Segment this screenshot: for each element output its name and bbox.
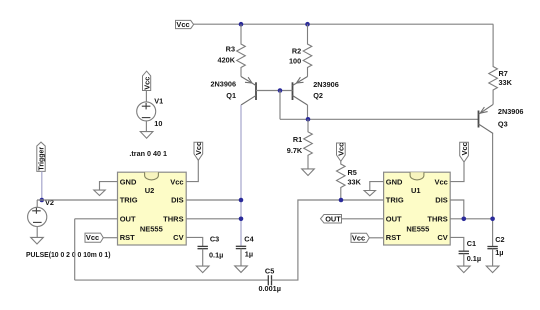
svg-text:Vcc: Vcc: [142, 77, 151, 90]
svg-text:GND: GND: [386, 177, 403, 186]
transistor Q2: [293, 77, 308, 106]
flag Vcc above V1 (vertical, apex up): [142, 71, 151, 90]
flag Vcc at U2 RST: [85, 233, 103, 242]
svg-text:R2: R2: [292, 46, 301, 55]
resistor R7: [489, 24, 498, 104]
svg-text:R1: R1: [293, 135, 302, 144]
ground at U1 GND: [364, 191, 375, 196]
capacitor C5: [268, 275, 271, 285]
wire Q1-Q2 base: [256, 90, 293, 92]
wire U1 THRS to C2: [450, 218, 492, 220]
ground below C3: [196, 266, 209, 273]
svg-text:33K: 33K: [499, 78, 513, 87]
voltage source V2: [28, 200, 47, 237]
ground below R1: [302, 169, 315, 176]
node R5 TRIG junction: [339, 198, 344, 203]
svg-text:Trigger: Trigger: [39, 147, 46, 171]
node mirror output: [306, 117, 311, 122]
wire C4 to ground: [240, 249, 242, 266]
resistor R5: [336, 161, 345, 200]
svg-text:Vcc: Vcc: [194, 142, 203, 155]
node THRS C2 junction: [490, 217, 495, 222]
wire U1 DIS down to THRS: [450, 200, 464, 219]
flag Vcc above U2 (vertical, apex down): [194, 142, 203, 160]
svg-text:R5: R5: [348, 168, 357, 177]
svg-text:THRS: THRS: [427, 214, 447, 223]
svg-text:NE555: NE555: [406, 224, 429, 233]
svg-text:33K: 33K: [348, 178, 362, 187]
wire V1 top: [145, 91, 147, 102]
wire Trigger vertical: [41, 171, 43, 200]
wire Q3 collector to C2: [492, 134, 494, 247]
svg-text:0.1µ: 0.1µ: [209, 250, 223, 259]
svg-text:C4: C4: [244, 235, 254, 244]
node U2 THRS junction: [239, 217, 244, 222]
svg-text:Q3: Q3: [498, 120, 508, 129]
svg-text:1µ: 1µ: [495, 248, 503, 257]
ground below V1: [140, 132, 153, 139]
resistor R3: [237, 24, 246, 76]
svg-text:2N3906: 2N3906: [498, 107, 524, 116]
IC U2 NE555 body: [118, 172, 187, 245]
node V2 trigger junction: [40, 198, 45, 203]
svg-text:CV: CV: [437, 233, 447, 242]
svg-text:10: 10: [154, 119, 162, 128]
svg-text:1µ: 1µ: [245, 249, 253, 258]
svg-text:C2: C2: [495, 235, 504, 244]
wire C1 to ground: [463, 254, 465, 267]
wire U2 THRS to C4 line: [186, 218, 241, 220]
capacitor C4: [236, 246, 246, 248]
wire Q2 collector: [307, 105, 309, 119]
wire U1 CV to C1: [450, 237, 464, 251]
svg-text:THRS: THRS: [163, 214, 183, 223]
wire U2 Vcc pin to flag: [186, 160, 198, 181]
svg-text:420K: 420K: [218, 55, 236, 64]
wire OUT flag to U1 OUT: [342, 218, 384, 220]
node Vcc rail junction at R2: [305, 22, 310, 27]
svg-text:OUT: OUT: [325, 214, 341, 223]
IC U1 NE555 body: [384, 172, 451, 245]
flag Vcc at U1 RST: [351, 233, 369, 242]
wire Q1 collector down to C4: [240, 105, 242, 246]
wire U2 CV to C3: [186, 237, 203, 246]
svg-text:Vcc: Vcc: [352, 233, 365, 242]
svg-text:Vcc: Vcc: [460, 142, 469, 155]
svg-text:GND: GND: [120, 177, 137, 186]
capacitor C1: [459, 251, 469, 253]
wire C5 to U1 TRIG: [272, 200, 384, 280]
node Vcc rail junction at R3: [239, 22, 244, 27]
svg-text:TRIG: TRIG: [120, 196, 138, 205]
svg-text:.tran 0 40 1: .tran 0 40 1: [129, 149, 167, 158]
svg-text:OUT: OUT: [120, 214, 136, 223]
svg-text:OUT: OUT: [386, 214, 402, 223]
wire mirror row to Q3 base: [280, 118, 478, 120]
svg-text:C5: C5: [265, 266, 274, 275]
svg-text:9.7K: 9.7K: [287, 146, 303, 155]
svg-text:DIS: DIS: [435, 196, 448, 205]
wire Vcc flag to U1 RST: [369, 237, 383, 239]
svg-text:Vcc: Vcc: [434, 177, 447, 186]
node U2 DIS junction: [239, 198, 244, 203]
svg-text:2N3906: 2N3906: [313, 80, 339, 89]
svg-text:0.001µ: 0.001µ: [258, 284, 280, 293]
svg-text:C3: C3: [210, 235, 219, 244]
wire V2 to U2 TRIG: [37, 199, 118, 201]
transistor Q3: [479, 104, 494, 133]
wire U1 Vcc pin to flag: [450, 162, 464, 182]
resistor R1: [304, 119, 313, 169]
wire U2 GND to ground: [100, 182, 118, 191]
svg-text:TRIG: TRIG: [386, 196, 404, 205]
ground below C1: [458, 266, 471, 273]
ground below V2: [31, 237, 44, 244]
svg-text:Q1: Q1: [226, 91, 236, 100]
ground below C2: [486, 266, 499, 273]
wire U2 DIS to C4 line: [186, 199, 241, 201]
wire U1 GND to ground: [370, 182, 384, 191]
svg-text:C1: C1: [467, 239, 476, 248]
node DIS THRS junction: [462, 217, 467, 222]
svg-text:RST: RST: [386, 233, 401, 242]
svg-text:Vcc: Vcc: [86, 233, 99, 242]
svg-text:Vcc: Vcc: [176, 20, 189, 29]
svg-text:R7: R7: [499, 69, 508, 78]
svg-text:Vcc: Vcc: [170, 177, 183, 186]
voltage source V1: [137, 102, 156, 121]
wire base to mirror row: [279, 91, 281, 120]
svg-text:Q2: Q2: [313, 91, 323, 100]
capacitor C3: [198, 246, 208, 248]
svg-text:Vcc: Vcc: [337, 143, 346, 156]
wire U2 OUT left and down: [75, 219, 269, 280]
transistor Q1: [241, 77, 256, 106]
svg-text:2N3906: 2N3906: [210, 80, 236, 89]
svg-text:V1: V1: [154, 97, 163, 106]
ground at U2 GND: [94, 190, 105, 195]
resistor R2: [303, 24, 312, 76]
svg-text:0.1µ: 0.1µ: [467, 254, 481, 263]
svg-text:U2: U2: [145, 186, 155, 195]
svg-text:PULSE(10 0 2 0 0 10m 0 1): PULSE(10 0 2 0 0 10m 0 1): [26, 252, 111, 259]
wire Vcc top rail: [194, 23, 494, 25]
svg-text:CV: CV: [173, 233, 183, 242]
wire C2 to ground: [492, 249, 494, 266]
svg-text:NE555: NE555: [140, 224, 163, 233]
svg-text:RST: RST: [120, 233, 135, 242]
flag Trigger (vertical, apex up): [37, 142, 46, 171]
svg-text:U1: U1: [411, 186, 421, 195]
svg-text:DIS: DIS: [171, 196, 184, 205]
capacitor C2: [487, 247, 497, 249]
flag Vcc (top left, horizontal): [176, 20, 194, 29]
flag OUT: [321, 214, 342, 223]
flag Vcc above U1 (vertical, apex down): [460, 142, 469, 162]
wire C3 to ground: [202, 249, 204, 266]
wire V1 bottom: [145, 121, 147, 132]
svg-text:R3: R3: [226, 44, 235, 53]
svg-text:100: 100: [289, 57, 301, 66]
node base junction: [278, 88, 283, 93]
ground below C4: [235, 266, 248, 273]
flag Vcc above R5 (vertical, apex down): [337, 143, 346, 162]
wire Vcc flag to U2 RST: [103, 237, 118, 239]
